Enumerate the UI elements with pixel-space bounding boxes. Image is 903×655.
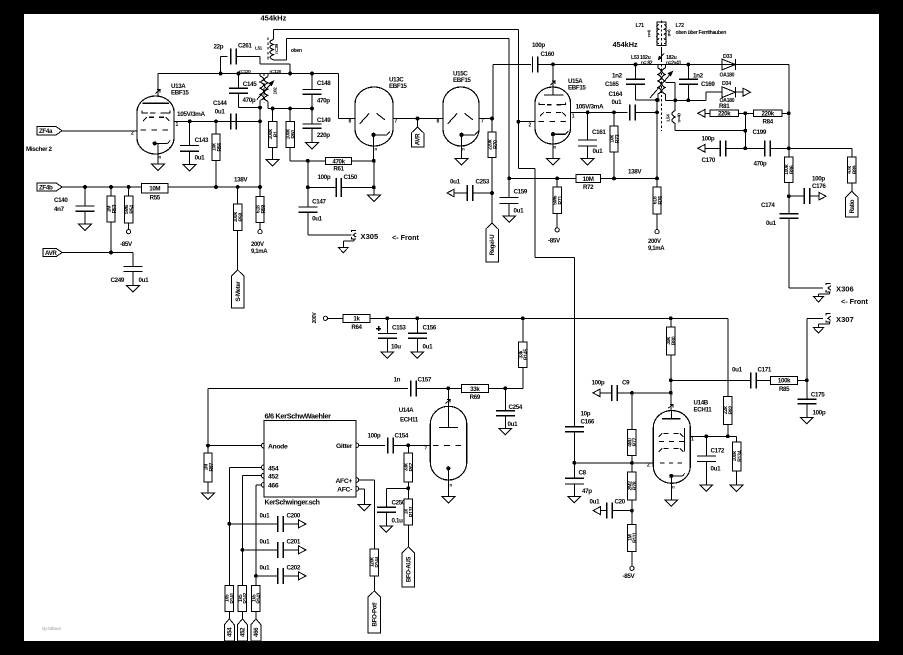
svg-text:R111: R111 <box>633 532 639 543</box>
svg-text:Regel-U: Regel-U <box>489 234 496 256</box>
capacitor C254 0u1 <box>496 388 523 428</box>
capacitor C200 0u1 <box>229 513 301 532</box>
node IFT1 left bottom <box>258 106 262 110</box>
svg-text:U14B: U14B <box>694 400 709 407</box>
node C199 left <box>743 146 747 150</box>
wire AVR line <box>62 253 133 267</box>
svg-text:AFC+: AFC+ <box>335 478 352 485</box>
tag BFO-AUS <box>402 547 415 587</box>
svg-text:C157: C157 <box>418 377 432 384</box>
wire top rail to L53 <box>553 63 789 65</box>
svg-text:AVR: AVR <box>415 133 422 145</box>
resistor R82 22k <box>723 396 734 436</box>
svg-text:452: 452 <box>240 627 247 637</box>
svg-text:100p: 100p <box>368 433 381 440</box>
svg-text:10M: 10M <box>149 185 160 192</box>
wire Anode pin <box>208 445 261 447</box>
wire AFC+ to R144 <box>359 480 375 549</box>
node C148 top <box>310 72 314 76</box>
wire hexode grid line <box>574 462 653 464</box>
svg-text:0u1: 0u1 <box>590 499 601 506</box>
svg-text:S-Meter: S-Meter <box>235 281 242 302</box>
resistor R56 10k <box>211 121 222 187</box>
svg-text:R54: R54 <box>129 205 135 214</box>
wire 138V rail left <box>62 186 260 188</box>
node 22p tap <box>219 72 223 76</box>
node L53 bottom line <box>655 98 659 102</box>
wire 200V rail <box>370 317 728 319</box>
wire IFT1 bottom node column <box>259 108 261 187</box>
svg-text:C150: C150 <box>344 174 358 181</box>
svg-text:200V: 200V <box>312 312 318 324</box>
node R82 bottom <box>726 434 730 438</box>
ground U13A <box>152 164 165 171</box>
arrow terminal D34 out <box>743 88 750 96</box>
ground X306 <box>814 297 824 303</box>
svg-text:X305: X305 <box>361 232 380 241</box>
resistor R73 10k <box>609 112 620 178</box>
pin AFC- <box>337 486 358 493</box>
svg-text:C149: C149 <box>317 117 331 124</box>
capacitor C160 100p <box>493 42 555 72</box>
svg-text:466: 466 <box>253 627 260 637</box>
svg-text:L51: L51 <box>255 46 263 51</box>
node R77 top <box>630 391 634 395</box>
node C150 left <box>306 186 310 190</box>
wire U13C pin7 to U15C pin8 <box>393 118 443 120</box>
node C201 tap <box>241 548 245 552</box>
svg-text:Mischer 2: Mischer 2 <box>26 146 53 153</box>
node L53 primary bottom <box>655 110 659 114</box>
svg-text:100p: 100p <box>813 410 826 417</box>
diode D33 OA180 <box>720 54 736 79</box>
svg-text:EBF15: EBF15 <box>389 83 407 90</box>
node C160 plate node <box>551 62 555 66</box>
node R71 top <box>555 177 559 181</box>
node C145 top <box>237 72 241 76</box>
svg-text:R86: R86 <box>790 165 796 174</box>
capacitor C166 10p <box>565 411 595 463</box>
capacitor C145 470p <box>229 74 260 108</box>
svg-text:R1: R1 <box>273 131 279 137</box>
svg-text:466: 466 <box>268 482 279 489</box>
node C144 right <box>258 119 262 123</box>
svg-text:BFO-Pot!: BFO-Pot! <box>372 602 379 626</box>
text 105V/3mA right <box>576 104 604 111</box>
node R61 left <box>306 159 310 163</box>
terminal 200V R59 <box>251 230 268 255</box>
wire C171 line <box>671 379 751 381</box>
svg-text:C144: C144 <box>213 100 227 107</box>
resistor R58 100k <box>233 187 244 270</box>
node Anode R87 <box>206 444 210 448</box>
svg-text:R76: R76 <box>658 196 664 205</box>
wire U13A cathode to ground <box>157 154 159 164</box>
svg-text:BFO-AUS: BFO-AUS <box>406 557 413 583</box>
svg-text:0u1: 0u1 <box>450 179 461 186</box>
svg-text:220p: 220p <box>317 132 330 139</box>
tag Ratio <box>846 191 859 217</box>
svg-text:oben: oben <box>291 48 302 54</box>
resistor R78 2M2 <box>627 463 638 511</box>
ground C159 <box>503 216 516 223</box>
ground X307 <box>814 328 824 334</box>
node U15A grid <box>517 120 521 124</box>
wire X307 shield <box>819 323 830 328</box>
svg-text:C171: C171 <box>758 367 772 374</box>
node C9 line <box>669 391 673 395</box>
capacitor C249 0u1 <box>111 267 150 286</box>
svg-text:0u1: 0u1 <box>593 148 604 155</box>
wire U13A anode line 105V <box>174 111 260 121</box>
node C20 R111 <box>630 509 634 513</box>
svg-text:100p: 100p <box>812 176 825 183</box>
wire L53 bottom right line <box>665 99 706 101</box>
wire U13C cathode <box>373 146 375 161</box>
resistor R85 100k <box>771 376 798 393</box>
svg-text:200V: 200V <box>251 242 264 248</box>
node C199 right <box>787 146 791 150</box>
svg-text:100p: 100p <box>318 174 331 181</box>
capacitor C253 0u1 <box>447 179 492 202</box>
resistor R87 1M <box>203 446 214 493</box>
node R73 top <box>612 110 616 114</box>
L53 adjust arrow <box>659 54 665 60</box>
svg-text:R61: R61 <box>333 166 344 173</box>
node R80 top <box>669 316 673 320</box>
node R53 <box>109 185 113 189</box>
wire L51 top to U15A grid column <box>274 30 519 40</box>
wire D33 to right column <box>735 64 788 66</box>
text L53 labels <box>631 55 682 66</box>
svg-text:0u1: 0u1 <box>423 344 434 351</box>
wire AFC- to ground <box>359 489 365 505</box>
capacitor C156 0u1 <box>408 318 437 352</box>
capacitor C149 220p <box>303 109 332 143</box>
svg-text:D33: D33 <box>723 54 732 60</box>
text Front X305 <box>392 233 420 242</box>
resistor R67 33k <box>404 445 415 488</box>
capacitor C153 10u polarized <box>376 318 406 352</box>
node X307 column <box>805 378 809 382</box>
svg-text:10p: 10p <box>581 411 591 418</box>
ground C140 <box>79 224 92 231</box>
wire detector mid column <box>744 113 746 148</box>
ground R87 <box>202 493 215 500</box>
svg-text:100p: 100p <box>532 42 545 49</box>
svg-text:C166: C166 <box>581 419 595 426</box>
arrow terminal C201 <box>299 546 306 554</box>
sheet box 6/6 KerSchwWaehler <box>264 411 356 506</box>
svg-text:0u1: 0u1 <box>612 99 623 106</box>
svg-text:C153: C153 <box>392 325 406 332</box>
svg-text:n=120: n=120 <box>270 69 282 74</box>
svg-text:OA180: OA180 <box>720 73 735 79</box>
svg-text:0u1: 0u1 <box>711 466 722 473</box>
node AVR column bottom <box>507 177 511 181</box>
node C254 top <box>503 386 507 390</box>
wire D34 feed <box>706 92 722 100</box>
wire X305 shield <box>343 239 354 247</box>
svg-text:L72: L72 <box>676 23 685 29</box>
node U14A anode <box>446 386 450 390</box>
svg-text:100p: 100p <box>702 136 715 143</box>
resistor R134 100k <box>732 436 743 485</box>
svg-text:C175: C175 <box>811 392 825 399</box>
svg-text:10u: 10u <box>391 344 401 351</box>
svg-text:100p: 100p <box>592 380 605 387</box>
svg-text:C253: C253 <box>476 179 490 186</box>
svg-text:R142: R142 <box>243 592 249 603</box>
transformer IFT1 left winding n=120 <box>239 69 264 108</box>
IFT1 tuning arrow <box>257 81 274 100</box>
capacitor C8 47p <box>565 463 592 497</box>
svg-text:C164: C164 <box>609 91 623 98</box>
node R58 top <box>236 185 240 189</box>
svg-text:ECH11: ECH11 <box>400 416 419 423</box>
pin 466 <box>261 482 278 489</box>
svg-text:470p: 470p <box>317 97 330 104</box>
node hexode grid <box>572 461 576 465</box>
wire Gitter line <box>359 444 385 446</box>
text Front X306 <box>841 297 869 306</box>
wire X307 stub <box>807 318 823 380</box>
svg-text:R53: R53 <box>112 204 118 213</box>
svg-text:22p: 22p <box>214 44 224 51</box>
resistor R54 5M6 <box>124 187 135 230</box>
capacitor C175 100p <box>797 380 825 417</box>
svg-text:Gitter: Gitter <box>336 443 353 450</box>
wire ZF4a to U13A grid <box>62 130 137 132</box>
svg-text:138V: 138V <box>628 169 642 176</box>
svg-text:C202: C202 <box>287 565 301 572</box>
svg-text:C165: C165 <box>605 81 619 88</box>
svg-text:L71: L71 <box>636 23 645 29</box>
capacitor C176 100p <box>789 176 827 205</box>
wire U15A grid tap <box>518 121 535 123</box>
capacitor C9 100p <box>592 380 671 401</box>
ground C254 <box>499 428 512 435</box>
capacitor C170 100p <box>702 136 746 165</box>
resistor R111 1M <box>627 511 638 567</box>
svg-text:L54: L54 <box>666 114 671 122</box>
svg-text:R58: R58 <box>239 213 245 222</box>
wire C157 line <box>208 387 408 389</box>
transformer L53 secondary winding <box>662 65 675 101</box>
capacitor C261 22p <box>214 43 291 74</box>
svg-text:R143: R143 <box>257 592 263 603</box>
arrow terminal R81 in <box>698 109 705 117</box>
svg-text:452: 452 <box>268 474 279 481</box>
svg-text:C156: C156 <box>423 325 437 332</box>
wire C160 left drop <box>492 64 494 118</box>
svg-text:C199: C199 <box>753 129 767 136</box>
node ratio out <box>787 194 791 198</box>
L53 tuning arrow <box>650 72 673 99</box>
node R80 bottom <box>669 378 673 382</box>
svg-text:C261: C261 <box>238 43 252 50</box>
svg-text:C172: C172 <box>711 448 725 455</box>
wire pin 452 <box>242 476 261 586</box>
svg-text:ZF4b: ZF4b <box>39 184 53 191</box>
wire 200V to R64 <box>328 317 344 319</box>
ground U15A <box>547 159 560 166</box>
node R76 top <box>655 177 659 181</box>
ground C153 <box>381 352 394 359</box>
svg-text:n=2x41: n=2x41 <box>666 60 682 66</box>
node R56 top <box>214 119 218 123</box>
tube U15A EBF15 <box>529 64 587 149</box>
svg-text:0u1: 0u1 <box>508 421 519 428</box>
svg-text:AFC-: AFC- <box>337 487 352 494</box>
wire C250 branch <box>386 488 408 507</box>
capacitor C250 0.1u <box>377 500 406 526</box>
ground C175 <box>800 417 813 424</box>
node C153 <box>385 316 389 320</box>
node C172 top <box>704 434 708 438</box>
node C140 <box>83 185 87 189</box>
arrow terminal C202 <box>299 572 306 580</box>
ground U14B <box>665 500 678 507</box>
svg-text:47p: 47p <box>582 488 592 495</box>
text 138V left <box>234 177 248 184</box>
tag ZF4b <box>37 183 62 192</box>
ground C161 <box>581 159 594 166</box>
node L54 top <box>673 98 677 102</box>
capacitor C150 100p <box>318 174 358 197</box>
wire U14B cathode to ground <box>670 483 672 500</box>
svg-text:0u1: 0u1 <box>139 277 150 284</box>
ground R134 <box>730 485 743 492</box>
arrow terminal C9 in <box>593 389 600 397</box>
capacitor C143 0u1 <box>180 121 209 164</box>
svg-text:105V/3mA: 105V/3mA <box>576 104 604 111</box>
svg-text:C249: C249 <box>111 277 125 284</box>
svg-text:n=120: n=120 <box>239 69 251 74</box>
svg-text:454kHz: 454kHz <box>261 14 287 23</box>
terminal -85V R111 <box>623 566 636 580</box>
tube U13A EBF15 <box>131 83 189 160</box>
resistor R70 220k <box>487 119 498 194</box>
node R84 right <box>787 111 791 115</box>
capacitor C157 1n <box>394 377 449 397</box>
svg-text:9,1mA: 9,1mA <box>648 246 665 252</box>
node C169 bottom <box>686 98 690 102</box>
resistor R131 1k <box>404 488 415 547</box>
resistor R77 4M7 <box>627 393 638 463</box>
capacitor C154 100p <box>368 433 431 454</box>
node R145 top <box>521 316 525 320</box>
svg-text:200V: 200V <box>648 239 661 245</box>
node C202 tap <box>254 574 258 578</box>
pin 452 <box>261 473 278 480</box>
svg-text:C148: C148 <box>317 80 331 87</box>
wire L53 primary column <box>656 100 658 178</box>
svg-text:C169: C169 <box>701 81 715 88</box>
node C143 top <box>188 119 192 123</box>
wire U13A plate to top rail <box>156 74 161 97</box>
svg-text:C9: C9 <box>622 380 630 387</box>
svg-text:U14A: U14A <box>399 407 414 414</box>
capacitor C164 0u1 <box>609 91 658 120</box>
svg-text:-85V: -85V <box>548 238 561 245</box>
connector X305 <box>351 230 379 240</box>
text credit <box>42 626 62 631</box>
svg-text:R82: R82 <box>729 406 735 415</box>
svg-text:Anode: Anode <box>268 443 288 450</box>
capacitor C20 0u1 <box>590 499 632 519</box>
svg-text:0u1: 0u1 <box>260 539 271 546</box>
capacitor C174 0u1 <box>761 196 798 227</box>
wire C174 to X306 <box>789 218 823 288</box>
svg-text:R78: R78 <box>633 481 639 490</box>
svg-text:R134: R134 <box>737 450 743 461</box>
wire grid column down <box>518 30 574 427</box>
svg-text:R71: R71 <box>558 196 564 205</box>
svg-text:EBF15: EBF15 <box>453 77 471 84</box>
text Mischer 2 <box>26 146 53 153</box>
arrow terminal C176 out <box>819 192 826 200</box>
arrow terminal C200 <box>299 520 306 528</box>
svg-text:10M: 10M <box>583 176 594 183</box>
wire R82 column <box>727 318 729 396</box>
svg-text:R72: R72 <box>583 184 594 191</box>
wire secondary bottom line <box>268 108 312 110</box>
wire R61 node line <box>308 160 374 162</box>
svg-text:R77: R77 <box>633 438 639 447</box>
svg-text:D34: D34 <box>722 81 731 87</box>
node C156 <box>415 316 419 320</box>
text 138V right <box>628 169 642 176</box>
tube U15C EBF15 <box>437 71 485 152</box>
wire L54 bottom to detector <box>675 130 745 132</box>
svg-text:C160: C160 <box>541 51 555 58</box>
tag AVR left <box>43 248 62 257</box>
node R67 bottom <box>406 486 410 490</box>
svg-text:-85V: -85V <box>623 573 636 580</box>
ground U15C <box>455 159 468 166</box>
svg-text:R85: R85 <box>779 386 790 393</box>
svg-text:X306: X306 <box>836 285 854 294</box>
arrow terminal C20 in <box>593 507 600 515</box>
node AVR tag tap <box>416 117 420 121</box>
resistor R59 618 <box>255 187 266 230</box>
svg-text:C159: C159 <box>514 189 528 196</box>
svg-text:X307: X307 <box>836 315 854 324</box>
wire C9 rail <box>670 318 672 327</box>
svg-text:R81: R81 <box>719 103 730 110</box>
ground C249 <box>127 286 140 293</box>
wire L53 core <box>661 48 663 131</box>
svg-text:R131: R131 <box>409 506 415 517</box>
wire pin 454 <box>229 467 261 585</box>
svg-text:C176: C176 <box>812 183 826 190</box>
svg-text:R60: R60 <box>291 130 297 139</box>
svg-text:ECH11: ECH11 <box>694 407 713 414</box>
node R81 R84 <box>743 111 747 115</box>
svg-text:0u1: 0u1 <box>732 367 743 374</box>
node L52 return <box>288 72 292 76</box>
ground U14A <box>442 497 455 504</box>
svg-text:EBF15: EBF15 <box>171 90 189 97</box>
svg-text:33k: 33k <box>470 386 480 393</box>
wire right column <box>788 65 790 158</box>
node C165 top <box>634 63 638 67</box>
resistor R86 100k <box>784 157 795 196</box>
svg-text:C161: C161 <box>592 129 606 136</box>
terminal -85V R71 <box>548 228 561 245</box>
svg-text:1k: 1k <box>353 316 360 323</box>
